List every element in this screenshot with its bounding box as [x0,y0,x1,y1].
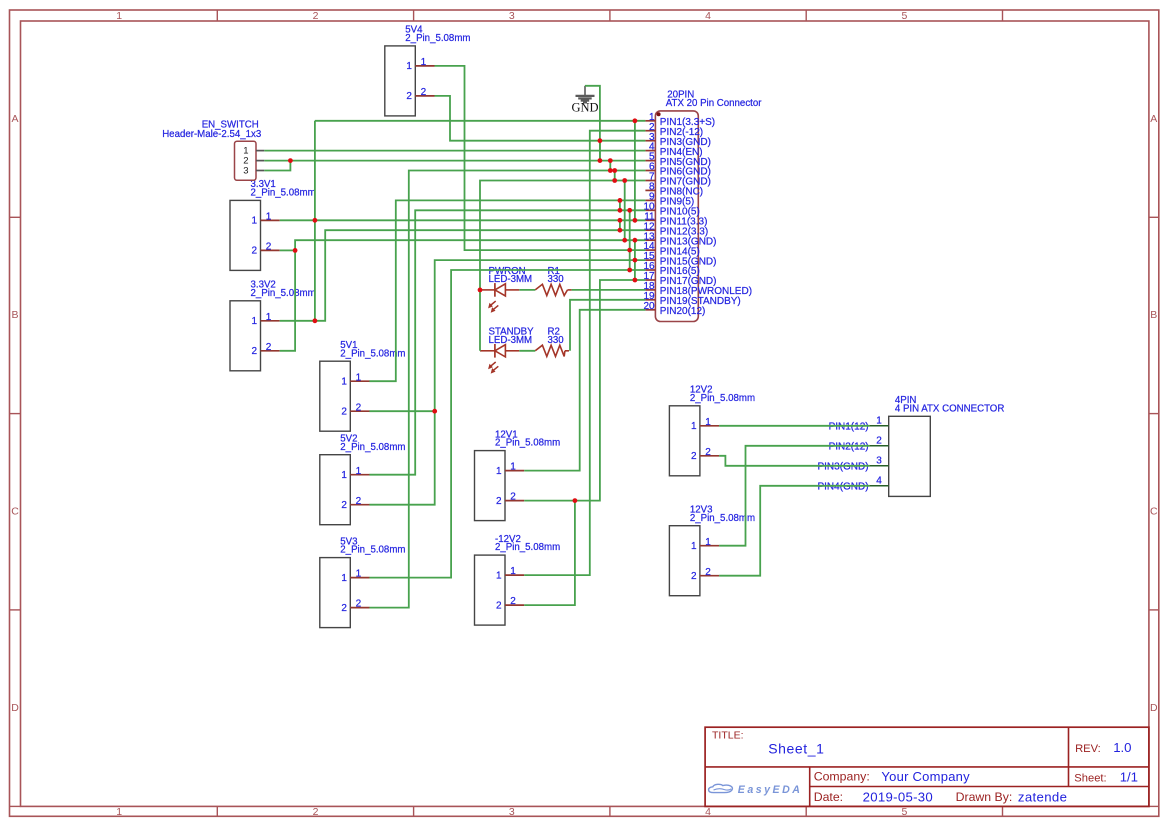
junction PIN5 row GND [598,158,603,163]
4PIN pin 1 (PIN1(12)) [870,425,889,427]
wire PIN17 to 12V1 pin2 [524,280,645,501]
connector EN_SWITCH (Header-Male-2.54_1x3) body [235,141,257,180]
connector 3.3V2 pin 1 [261,320,280,322]
svg-text:1: 1 [406,61,412,72]
svg-text:Sheet:: Sheet: [1074,773,1106,785]
EN_SWITCH pin 3 [256,170,264,172]
svg-text:PIN20(12): PIN20(12) [660,306,706,317]
wire EN_SWITCH pin2 to PIN5 [264,160,645,162]
svg-text:Drawn By:: Drawn By: [956,790,1013,804]
20PIN pin 17 (PIN17(GND)) [645,279,655,281]
svg-text:330: 330 [548,335,565,346]
junction 3.3 net at PIN11 row [313,218,318,223]
wire 5V3 pin2 to PIN6 [369,171,645,608]
20PIN pin 7 (PIN7(GND)) [645,180,655,182]
svg-text:A: A [11,113,18,125]
junction PIN10 row 5V b [627,208,632,213]
wire R1 to PIN18 [572,289,646,291]
svg-text:1: 1 [510,566,516,577]
svg-text:3: 3 [509,10,515,22]
svg-text:4: 4 [876,476,882,487]
svg-text:2: 2 [252,346,258,357]
connector 12V2 pin 1 [700,425,719,427]
20PIN pin 9 (PIN9(5)) [645,199,655,201]
svg-text:C: C [1150,506,1158,518]
junction PIN7 row GND b [622,178,627,183]
wire 12V3 pin2 to 4PIN pin4 [719,486,870,576]
connector 5V2 pin 2 [350,504,369,506]
LED STANDBY (LED-3MM) [480,350,495,352]
20PIN pin 8 (PIN8(NC)) [645,189,655,191]
svg-text:PIN2(12): PIN2(12) [829,441,869,452]
svg-text:Your Company: Your Company [881,769,970,784]
4PIN pin 2 (PIN2(12)) [870,445,889,447]
wire PIN20 to 12V1 pin1 [524,310,645,471]
wire 5V4 pin1 to PIN14 [435,66,646,250]
EasyEDA logo [709,784,733,792]
wire 5V1 pin1 to PIN9 [369,200,645,381]
connector 3.3V1 (2_Pin_5.08mm) body [230,200,261,270]
connector 12V2 (2_Pin_5.08mm) body [669,406,700,476]
junction PIN15 row GND [633,258,638,263]
junction PIN13 row GND [622,238,627,243]
svg-text:1: 1 [510,462,516,473]
svg-text:2: 2 [356,402,362,413]
wire PIN2 to -12V2 pin1 [524,131,645,575]
svg-text:1: 1 [356,466,362,477]
svg-text:EasyEDA: EasyEDA [738,784,803,796]
junction PIN17 row GND [633,278,638,283]
EN_SWITCH pin 2 [256,160,264,162]
connector 20PIN (ATX 20 Pin Connector) body [655,111,698,322]
svg-text:1: 1 [705,537,711,548]
connector 3.3V2 pin 2 [261,350,280,352]
connector 5V2 pin 1 [350,474,369,476]
svg-text:REV:: REV: [1075,743,1101,755]
connector 12V3 pin 1 [700,545,719,547]
svg-text:4: 4 [705,806,711,818]
connector -12V2 (2_Pin_5.08mm) body [475,555,506,625]
svg-text:1: 1 [116,806,122,818]
svg-text:1.0: 1.0 [1113,740,1131,755]
wire 3.3V1 pin2 stub link [280,249,295,251]
wire 5V chain PIN9-PIN10 [619,200,621,210]
svg-text:A: A [1150,113,1157,125]
svg-text:4 PIN ATX CONNECTOR: 4 PIN ATX CONNECTOR [895,403,1004,414]
connector 5V4 (2_Pin_5.08mm) body [385,46,416,116]
junction PIN6 row GND [608,168,613,173]
svg-text:ATX 20 Pin Connector: ATX 20 Pin Connector [666,98,762,109]
svg-text:Company:: Company: [814,770,870,784]
connector 5V1 pin 1 [350,380,369,382]
junction PIN10 row 5V [618,208,623,213]
svg-text:1: 1 [356,372,362,383]
connector 3.3V1 pin 2 [261,249,280,251]
20PIN pin 15 (PIN15(GND)) [645,259,655,261]
svg-text:2: 2 [406,91,412,102]
20PIN pin 19 (PIN19(STANDBY)) [645,299,655,301]
connector 12V1 (2_Pin_5.08mm) body [475,451,506,521]
svg-text:D: D [11,702,19,714]
junction PIN9 row 5V [618,198,623,203]
wire 3.3V1 pin1 to PIN11 [280,219,646,221]
svg-text:2_Pin_5.08mm: 2_Pin_5.08mm [690,393,755,404]
svg-text:LED-3MM: LED-3MM [489,335,533,346]
svg-text:1: 1 [421,57,427,68]
20PIN pin 1 (PIN1(3.3+S)) [645,120,655,122]
20PIN pin 20 (PIN20(12)) [645,309,655,311]
wire GND symbol to PIN3/PIN5 vertical [585,86,600,161]
svg-text:2: 2 [313,806,319,818]
svg-text:2: 2 [876,436,882,447]
svg-text:2: 2 [356,599,362,610]
svg-text:Sheet_1: Sheet_1 [768,740,824,756]
svg-text:1: 1 [691,421,697,432]
wire 5V2 pin2 to PIN15 [369,260,645,505]
ground symbol GND [576,86,595,103]
svg-text:2: 2 [496,496,502,507]
svg-text:3: 3 [876,456,882,467]
svg-text:1: 1 [116,10,122,22]
wire LED cathode GND riser to PIN7 [480,181,645,351]
svg-text:2: 2 [313,10,319,22]
svg-text:2: 2 [691,571,697,582]
junction PIN7 row GND [612,178,617,183]
20PIN pin 13 (PIN13(GND)) [645,239,655,241]
svg-text:1: 1 [252,216,258,227]
junction PIN1 row [633,118,638,123]
svg-text:2_Pin_5.08mm: 2_Pin_5.08mm [340,545,405,556]
wire PIN1 row horizontal [315,120,646,122]
title block border [705,727,1149,806]
svg-text:B: B [1150,309,1157,321]
wire GND chain PIN5-PIN6 [609,161,611,171]
svg-text:2: 2 [705,447,711,458]
junction PIN12 row 3.3 [618,228,623,233]
wire GND chain PIN6-PIN7 [614,171,616,181]
svg-text:zatende: zatende [1018,789,1067,804]
wire R2 to PIN19 [570,300,645,351]
connector 5V4 pin 1 [415,65,434,67]
svg-text:1: 1 [705,417,711,428]
svg-text:1: 1 [496,570,502,581]
20PIN pin 6 (PIN6(GND)) [645,170,655,172]
junction PIN3 row [598,138,603,143]
svg-text:4: 4 [705,10,711,22]
svg-text:2: 2 [705,567,711,578]
svg-text:2: 2 [496,600,502,611]
wire 12V3 pin1 to 4PIN pin2 [719,446,870,546]
svg-text:1/1: 1/1 [1120,770,1138,785]
junction PIN13 row GND b [633,238,638,243]
wire 12V1 pin2 to -12V2 pin2 [524,501,575,605]
junction 3.3V2 pin1 [313,318,318,323]
svg-text:2019-05-30: 2019-05-30 [863,789,933,804]
svg-text:2: 2 [266,342,272,353]
resistor R2 (330) [535,345,565,356]
svg-text:5: 5 [901,806,907,818]
svg-text:1: 1 [266,312,272,323]
svg-text:2_Pin_5.08mm: 2_Pin_5.08mm [495,542,560,553]
svg-text:2: 2 [510,596,516,607]
junction PIN6 row GND b [612,168,617,173]
svg-text:D: D [1150,702,1158,714]
20PIN pin 4 (PIN4(EN)) [645,150,655,152]
wire EN_SWITCH pin1 to PIN4 [264,150,645,152]
svg-text:1: 1 [691,541,697,552]
svg-text:PIN1(12): PIN1(12) [829,421,869,432]
connector 12V3 pin 2 [700,575,719,577]
svg-text:1: 1 [252,316,258,327]
svg-text:1: 1 [496,466,502,477]
4PIN pin 4 (PIN4(GND)) [870,485,889,487]
svg-text:2: 2 [341,500,347,511]
svg-text:GND: GND [571,100,598,114]
wire 5V1 pin2 horizontal [369,410,434,412]
connector 5V3 (2_Pin_5.08mm) body [320,558,351,628]
svg-text:PIN3(GND): PIN3(GND) [817,461,868,472]
wire 3.3V2 pin1 to PIN12 riser [280,230,646,321]
svg-text:2: 2 [421,87,427,98]
20PIN pin 14 (PIN14(5)) [645,249,655,251]
20PIN pin 5 (PIN5(GND)) [645,160,655,162]
connector -12V2 pin 2 [505,604,524,606]
wire GND chain PIN7-PIN13 [624,181,626,241]
svg-text:2: 2 [341,603,347,614]
wire 3.3 chain PIN1-PIN11 [634,121,636,221]
connector 5V1 (2_Pin_5.08mm) body [320,361,351,431]
LED PWRON (LED-3MM) [480,289,495,291]
connector 3.3V1 pin 1 [261,219,280,221]
connector 5V3 pin 1 [350,577,369,579]
wire 5V3 pin1 to PIN16 [369,270,645,578]
wire 5V4 pin2 to PIN3 [435,96,646,141]
20PIN pin 3 (PIN3(GND)) [645,140,655,142]
connector 5V4 pin 2 [415,95,434,97]
svg-text:2: 2 [510,492,516,503]
wire GND chain PIN3-PIN5 [599,141,601,161]
connector 12V1 pin 2 [505,500,524,502]
junction 5V1 pin2 [432,409,437,414]
wire 5V chain PIN10-PIN14-PIN16 [629,210,631,270]
connector 4PIN (4 PIN ATX CONNECTOR) body [889,416,931,496]
connector 12V1 pin 1 [505,470,524,472]
svg-text:2: 2 [691,451,697,462]
svg-text:1: 1 [266,212,272,223]
junction PIN11 row 3.3 [618,218,623,223]
20PIN pin 12 (PIN12(3.3)) [645,229,655,231]
svg-text:2_Pin_5.08mm: 2_Pin_5.08mm [405,33,470,44]
junction PIN5 row GND b [608,158,613,163]
svg-text:1: 1 [341,377,347,388]
svg-text:2: 2 [252,246,258,257]
svg-text:2: 2 [356,496,362,507]
junction PWRON LED cathode [478,288,483,293]
svg-text:1: 1 [341,470,347,481]
wire 3.3V1 pin2 / 3.3V2 pin2 to PIN13 [280,240,646,351]
svg-text:5: 5 [901,10,907,22]
junction PIN14 row 5V [627,248,632,253]
svg-text:1: 1 [876,416,882,427]
4PIN pin 3 (PIN3(GND)) [870,465,889,467]
svg-text:TITLE:: TITLE: [712,730,744,742]
junction PIN16 row 5V [627,268,632,273]
20PIN pin 18 (PIN18(PWRONLED)) [645,289,655,291]
wire STANDBY LED anode to R2 [519,350,535,352]
wire 3.3 chain PIN11-PIN12 [619,220,621,230]
20PIN pin 2 (PIN2(-12)) [645,130,655,132]
svg-text:330: 330 [548,274,565,285]
svg-text:2_Pin_5.08mm: 2_Pin_5.08mm [251,188,316,199]
svg-text:2: 2 [341,407,347,418]
junction EN_SWITCH pin2/pin3 [288,158,293,163]
connector -12V2 pin 1 [505,574,524,576]
svg-text:3: 3 [509,806,515,818]
wire 3.3 net vertical from PIN1 row [314,121,316,321]
wire EN_SWITCH pin3 riser [264,161,290,171]
svg-text:C: C [11,506,19,518]
20PIN pin 11 (PIN11(3.3)) [645,219,655,221]
wire 12V2 pin2 to 4PIN pin3 [719,456,870,466]
svg-text:2_Pin_5.08mm: 2_Pin_5.08mm [495,438,560,449]
svg-text:2_Pin_5.08mm: 2_Pin_5.08mm [340,442,405,453]
junction PIN11 row 3.3 b [633,218,638,223]
title block dividers [705,766,1149,768]
connector 12V2 pin 2 [700,455,719,457]
svg-text:B: B [11,309,18,321]
connector 5V1 pin 2 [350,410,369,412]
svg-text:PIN4(GND): PIN4(GND) [817,481,868,492]
connector 12V3 (2_Pin_5.08mm) body [669,526,700,596]
wire 5V2 pin1 to PIN10 [369,210,645,474]
svg-text:Header-Male-2.54_1x3: Header-Male-2.54_1x3 [162,129,261,140]
svg-text:2_Pin_5.08mm: 2_Pin_5.08mm [251,288,316,299]
junction 3.3V1 pin2 [293,248,298,253]
connector 5V3 pin 2 [350,607,369,609]
resistor R1 (330) [535,284,567,295]
svg-text:LED-3MM: LED-3MM [489,274,533,285]
svg-text:2: 2 [266,242,272,253]
wire GND chain PIN13-PIN15-PIN17 [634,240,636,280]
connector 5V2 (2_Pin_5.08mm) body [320,455,351,525]
svg-text:1: 1 [341,573,347,584]
EN_SWITCH pin 1 [256,150,264,152]
20PIN pin 10 (PIN10(5)) [645,209,655,211]
20PIN pin 16 (PIN16(5)) [645,269,655,271]
svg-text:1: 1 [356,569,362,580]
junction 12V1 pin2 GND [573,498,578,503]
connector 20PIN pin-1 origin dot [657,112,661,116]
svg-text:Date:: Date: [814,790,843,804]
wire PWRON LED anode to R1 [519,289,535,291]
svg-text:3: 3 [243,165,248,176]
connector 3.3V2 (2_Pin_5.08mm) body [230,301,261,371]
wire 12V2 pin1 to 4PIN pin1 [719,425,870,427]
